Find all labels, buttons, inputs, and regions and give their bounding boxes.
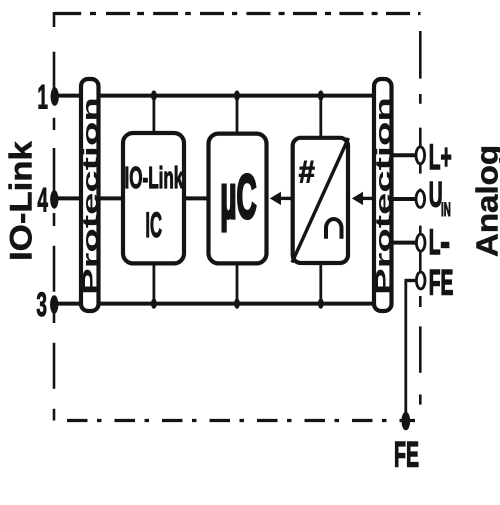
wire: stub bottom of ADC [319, 262, 322, 304]
terminal L+ circle [416, 147, 425, 164]
junction on top bus at ADC [318, 90, 324, 100]
junction on top bus at uC [234, 90, 240, 100]
frame left border (dash-dot) [53, 12, 56, 421]
frame top border (dash-dot) [54, 12, 421, 15]
IO-Link IC block [123, 133, 184, 263]
terminal 3 dot [50, 295, 58, 314]
wire: right protection to L- [394, 241, 418, 245]
wire: stub top of uC [236, 96, 239, 133]
svg-text:µC: µC [220, 163, 256, 233]
microcontroller uC block [209, 134, 267, 264]
svg-text:IN: IN [441, 200, 451, 222]
wire: ADC to uC (arrow line) [280, 197, 292, 200]
wire: right protection to L+ [394, 153, 417, 157]
terminal L- circle [416, 234, 425, 251]
wire: mid pin4 to IO-Link IC [54, 196, 121, 200]
svg-text:1: 1 [37, 78, 48, 116]
wire: bottom bus pin3 to right protection [54, 302, 372, 306]
wire: top bus pin1 to right protection [55, 94, 372, 98]
svg-text:#: # [299, 154, 315, 189]
ADC diagonal line [292, 138, 349, 263]
svg-text:IC: IC [145, 205, 162, 245]
wire: right protection to ADC (arrow line) [362, 197, 372, 200]
svg-text:4: 4 [37, 181, 48, 219]
ADC analog symbol (n-shape) [326, 219, 342, 239]
svg-text:IO-Link: IO-Link [3, 140, 38, 261]
wire: stub bottom of IO-Link IC [152, 264, 155, 304]
svg-text:Protection: Protection [78, 97, 103, 295]
wire: right protection to U_IN [394, 197, 417, 201]
wire: FE elbow vertical down to frame [404, 281, 407, 421]
svg-text:FE: FE [429, 262, 454, 302]
terminal U_IN circle [416, 191, 425, 208]
wire: FE elbow horizontal [405, 279, 417, 282]
frame right border (dash-dot) [419, 31, 422, 405]
wire: IO-Link IC to uC [186, 196, 207, 200]
svg-text:FE: FE [394, 435, 419, 475]
junction on bottom bus at uC [234, 298, 240, 308]
FE earth dot on bottom frame [401, 412, 410, 431]
svg-text:Protection: Protection [371, 97, 396, 295]
wire: stub bottom of uC [236, 264, 239, 304]
A/D converter block [293, 138, 348, 263]
frame bottom border (dash-dot) [67, 419, 415, 422]
protection block right (Analog side) [374, 79, 392, 311]
svg-text:3: 3 [36, 285, 47, 323]
terminal 4 dot [50, 190, 58, 209]
arrowhead into ADC [352, 192, 363, 205]
junction on bottom bus at ADC [318, 298, 324, 308]
junction on bottom bus at IO-Link IC [151, 298, 157, 308]
svg-text:L+: L+ [429, 137, 452, 177]
svg-text:Analog: Analog [470, 145, 500, 257]
wire: stub top of ADC [319, 96, 322, 138]
junction on top bus at IO-Link IC [151, 90, 157, 100]
svg-text:IO-Link: IO-Link [125, 162, 184, 195]
wire: stub top of IO-Link IC [152, 96, 155, 133]
svg-text:L: L [429, 222, 441, 262]
arrowhead into uC [270, 192, 281, 205]
protection block left (IO-Link side) [81, 79, 99, 311]
terminal FE circle [416, 272, 425, 289]
terminal 1 dot [51, 87, 59, 106]
